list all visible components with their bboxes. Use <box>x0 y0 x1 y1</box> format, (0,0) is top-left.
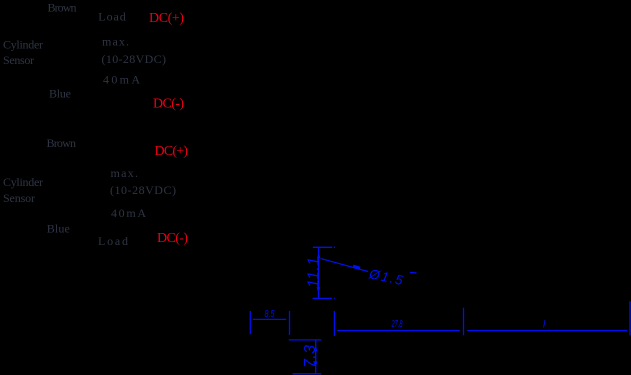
svg-text:(10-28VDC): (10-28VDC) <box>110 183 176 197</box>
svg-text:Blue: Blue <box>47 222 70 236</box>
svg-text:Brown: Brown <box>48 0 77 14</box>
svg-text:8.5: 8.5 <box>265 308 275 320</box>
dimension 8.5 right extension line <box>289 311 291 335</box>
dimension 7.3 top extension line <box>289 339 322 341</box>
svg-text:27.8: 27.8 <box>391 319 403 330</box>
leader for cable diameter <box>321 259 368 272</box>
dimension 7.3 top arrowhead <box>314 346 318 352</box>
svg-text:7.3: 7.3 <box>302 345 319 368</box>
dimension l dimension line <box>467 330 627 332</box>
dimension 27.8 dimension line <box>337 330 460 332</box>
leader arrow thick segment <box>353 266 360 268</box>
dash after Ø1.5 <box>410 271 417 274</box>
dimension 27.8 left tick <box>333 311 335 336</box>
dimension 7.3 bottom extension line <box>293 373 322 375</box>
svg-text:Load: Load <box>98 234 128 248</box>
svg-text:DC(+): DC(+) <box>155 144 189 159</box>
svg-text:Sensor: Sensor <box>3 53 34 67</box>
svg-text:DC(-): DC(-) <box>153 97 184 112</box>
dimension l right tick <box>629 301 631 335</box>
dimension l middle tick <box>463 308 465 336</box>
svg-text:Cylinder: Cylinder <box>3 175 43 189</box>
svg-text:40mA: 40mA <box>103 72 140 86</box>
svg-text:Brown: Brown <box>47 136 77 150</box>
svg-text:40mA: 40mA <box>111 206 146 220</box>
dimension 7.3 bottom arrowhead <box>313 361 317 367</box>
dimension 11.1 dimension line <box>318 247 320 298</box>
dimension 7.3 dimension line <box>315 340 317 374</box>
dimension 11.1 top extension line <box>313 246 335 248</box>
dimension 11.1 bottom arrowhead <box>317 287 321 293</box>
svg-text:Cylinder: Cylinder <box>3 37 43 51</box>
dimension 11.1 bottom extension line <box>313 297 335 299</box>
svg-text:(10-28VDC): (10-28VDC) <box>102 52 167 66</box>
svg-text:DC(-): DC(-) <box>157 231 188 246</box>
svg-text:Blue: Blue <box>49 87 71 101</box>
svg-text:Load: Load <box>98 10 126 24</box>
dimension 11.1 top arrowhead <box>317 253 321 259</box>
svg-text:DC(+): DC(+) <box>149 11 184 26</box>
svg-text:11.1: 11.1 <box>305 257 322 288</box>
svg-text:Sensor: Sensor <box>3 191 35 205</box>
dimension 8.5 dimension line <box>253 318 286 320</box>
dimension 8.5 left extension line <box>249 311 251 334</box>
